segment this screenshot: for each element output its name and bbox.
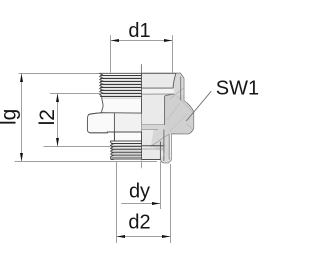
dimension l2 xyxy=(50,93,102,95)
column horizontal edge y88 xyxy=(142,87,174,89)
dimension dy xyxy=(141,161,143,169)
inner corner line x180.7 xyxy=(180,77,182,101)
wedge D4 under-flange chamfer xyxy=(151,130,169,160)
horizontal edge y149 xyxy=(142,148,165,150)
dimension d1 xyxy=(110,35,112,73)
horizontal edge y145.7 xyxy=(142,145,164,147)
svg-text:SW1: SW1 xyxy=(216,77,259,99)
svg-text:d2: d2 xyxy=(128,212,150,234)
band edges xyxy=(142,124,166,126)
vertical edge x164.6 upper xyxy=(164,96,166,125)
dimension d2 xyxy=(116,162,118,243)
highlight band xyxy=(142,89,175,94)
top thread hatch xyxy=(100,75,141,77)
top stub edge xyxy=(140,64,142,73)
svg-text:d1: d1 xyxy=(128,20,150,42)
svg-text:l2: l2 xyxy=(36,109,59,125)
shading lines xyxy=(177,96,194,113)
label SW1 with leader xyxy=(186,91,211,121)
dimension lg xyxy=(19,73,100,75)
flange main shading D2 xyxy=(165,94,194,135)
lower outer cylinder strip (light) xyxy=(169,134,171,160)
chamfer shading D1 top-right xyxy=(173,73,184,95)
bottom thread hatch xyxy=(111,143,141,145)
bottom chamfer wedge xyxy=(161,156,172,163)
vertical edge x163.9 lower xyxy=(163,130,165,162)
svg-text:dy: dy xyxy=(129,181,150,203)
cross band D3 xyxy=(142,125,166,130)
svg-text:lg: lg xyxy=(0,109,20,125)
flange top-left edge xyxy=(165,94,175,96)
vertical edge x160.4 xyxy=(159,142,161,160)
fitting body front silhouette xyxy=(87,73,141,159)
hex section edges xyxy=(89,113,142,115)
fitting body rear column outline xyxy=(142,73,194,163)
bottom thread top edge xyxy=(111,140,142,142)
column horizontal edge y94 xyxy=(142,93,175,95)
hex right face tint xyxy=(114,113,141,132)
